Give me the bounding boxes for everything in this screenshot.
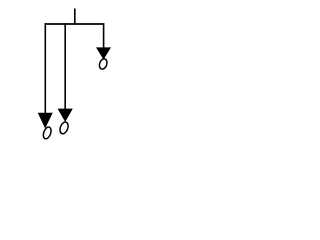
wire middle drop: [64, 23, 66, 109]
wire left drop: [44, 23, 46, 113]
node balloon right: [98, 58, 108, 70]
arrowhead left: [38, 113, 53, 129]
node balloon left: [42, 126, 53, 140]
node balloon middle: [58, 121, 69, 135]
arrowhead middle: [58, 109, 73, 122]
wire right drop: [103, 23, 105, 48]
wire horizontal bar: [45, 23, 105, 25]
arrowhead right: [96, 47, 111, 59]
wire top stub: [74, 9, 76, 25]
